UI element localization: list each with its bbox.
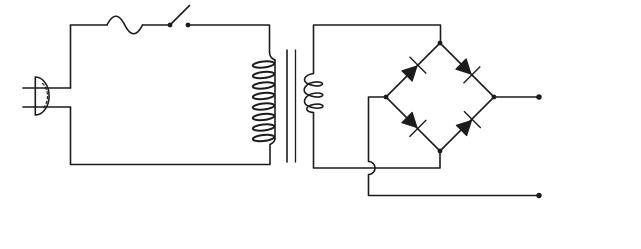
bridge wire top-vertex to right-vertex	[440, 43, 494, 97]
junction node bottom vertex	[438, 149, 443, 154]
junction node right vertex	[492, 95, 497, 100]
junction node top vertex	[438, 41, 443, 46]
bridge wire bottom-vertex to right-vertex	[440, 97, 494, 151]
wire secondary bottom lead	[314, 113, 441, 169]
diode D3 (left vertex to bottom vertex)	[399, 110, 426, 137]
transformer secondary winding L2	[304, 74, 323, 113]
junction node left vertex	[384, 95, 389, 100]
fuse F1	[107, 16, 143, 34]
wire fuse to switch	[143, 24, 171, 26]
wire switch to transformer primary	[188, 25, 270, 52]
diode D4 (bottom vertex to right vertex)	[454, 112, 481, 139]
bridge wire left-vertex to bottom-vertex	[386, 97, 440, 151]
switch S1	[168, 6, 191, 28]
wire negative output with crossover hop	[369, 97, 540, 196]
wire left vertical top (plug to top rail)	[70, 25, 72, 88]
plug P1 prong top	[23, 87, 71, 89]
wire top rail to fuse	[71, 24, 108, 26]
diode D1 (left vertex to top vertex)	[399, 57, 426, 84]
transformer primary winding L1	[253, 52, 275, 145]
terminal positive output	[536, 94, 542, 100]
terminal negative output	[536, 193, 542, 199]
diode D2 (top vertex to right vertex)	[453, 56, 480, 83]
plug P1 prong bottom	[23, 106, 71, 108]
plug P1 body	[35, 77, 49, 115]
bridge wire left-vertex to top-vertex	[386, 43, 440, 97]
wire secondary top lead	[314, 25, 441, 74]
wire primary bottom lead	[71, 107, 271, 165]
wire positive output	[494, 96, 539, 98]
transformer core	[287, 50, 296, 162]
